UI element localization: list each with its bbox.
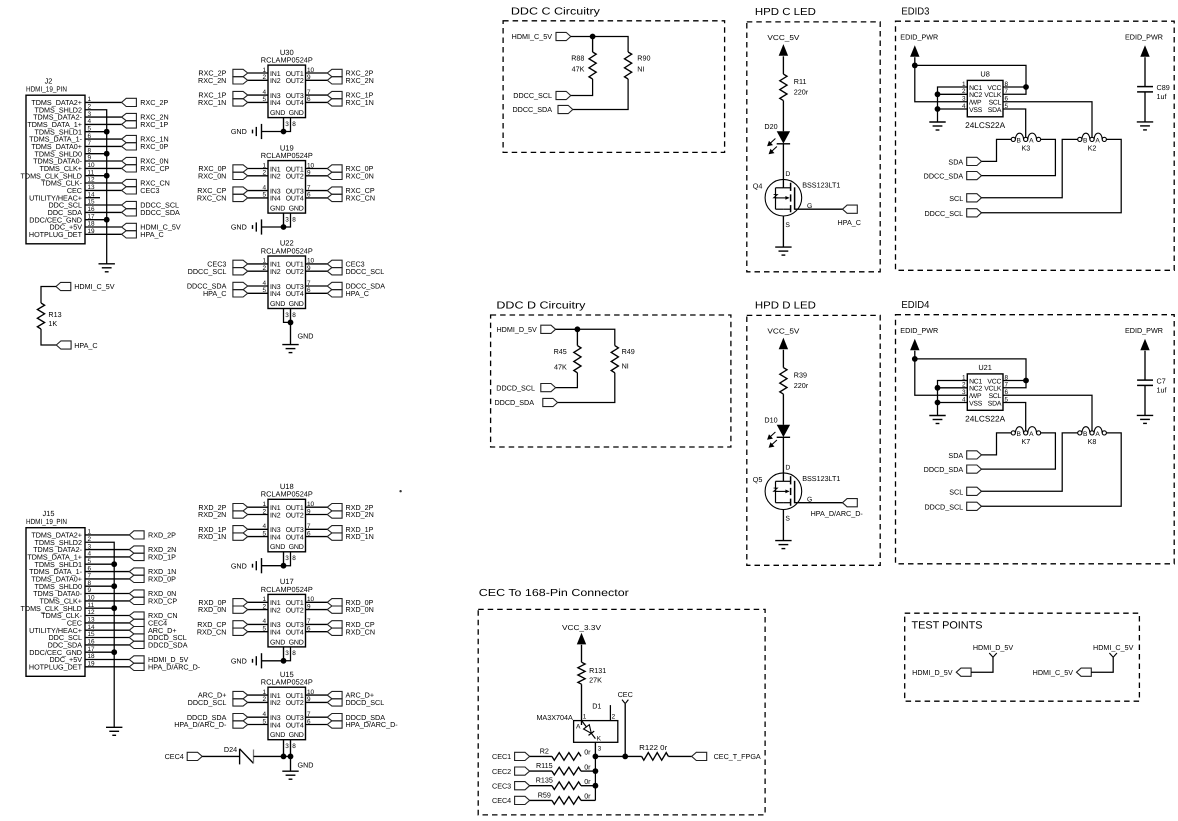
section box DDC D Circuitry <box>491 315 731 447</box>
wire J2 pin 11 shield <box>85 175 107 177</box>
port RXC_1P (to U30 IN3) <box>233 91 248 98</box>
svg-text:8: 8 <box>292 121 296 128</box>
svg-text:0r: 0r <box>584 748 591 757</box>
port RXD_1N (from U18 OUT4) <box>327 533 342 540</box>
ground GND (U22) <box>282 344 298 346</box>
port SDA <box>967 451 982 459</box>
wire U18 pin8 to ground <box>284 552 291 566</box>
ground J2 shield <box>99 263 115 265</box>
junction U19 gnd <box>281 224 287 230</box>
wire J2 pin 13 <box>85 189 122 191</box>
svg-text:D1: D1 <box>592 702 601 711</box>
junction J15 pin 11 <box>111 605 117 611</box>
resistor R2 0r <box>552 753 581 761</box>
svg-text:GND: GND <box>298 760 314 769</box>
svg-text:RXC_0N: RXC_0N <box>198 171 226 180</box>
wire EDID_PWR to C89 <box>1144 57 1146 86</box>
junction U18 gnd <box>281 563 287 569</box>
svg-text:IN4: IN4 <box>270 630 281 637</box>
wire VCC_3.3V to R131 <box>581 645 583 662</box>
wire U17 pin3 to ground <box>283 647 285 661</box>
wire J15 pin 11 shield <box>85 607 114 609</box>
svg-text:8: 8 <box>292 555 296 562</box>
ground GND (U17) <box>261 653 263 668</box>
resistor R115 0r <box>552 767 581 775</box>
wire U19 out2 <box>306 175 328 177</box>
wire J15 pin 8 shield <box>85 585 114 587</box>
wire U18 out3 <box>306 528 328 530</box>
wire J2 pin 15 <box>85 204 122 206</box>
port RXD_0N <box>129 590 144 597</box>
svg-text:OUT2: OUT2 <box>286 607 304 614</box>
svg-text:OUT3: OUT3 <box>286 284 304 291</box>
wire node to R88 <box>592 37 594 53</box>
svg-text:47K: 47K <box>572 65 585 74</box>
svg-text:SCL: SCL <box>949 194 963 203</box>
port CEC3 <box>515 782 530 790</box>
port RXC_2P (to U30 IN1) <box>233 69 248 76</box>
wire J15 pin 7 <box>85 578 129 580</box>
junction CEC bus r1 <box>593 754 599 760</box>
jumper K3 <box>1011 137 1015 141</box>
wire J15 pin 9 <box>85 593 129 595</box>
jumper K2 <box>1078 137 1082 141</box>
port RXC_0N (to U19 IN2) <box>233 172 248 179</box>
resistor R90 NI <box>625 52 632 79</box>
svg-text:RCLAMP0524P: RCLAMP0524P <box>261 585 313 594</box>
port HDMI_D_5V <box>129 656 144 663</box>
wire U19 in1 <box>248 168 268 170</box>
svg-text:SCL: SCL <box>989 393 1002 400</box>
svg-text:OUT4: OUT4 <box>286 722 304 729</box>
svg-text:RXD_2N: RXD_2N <box>198 510 226 519</box>
port CEC2 <box>515 767 530 775</box>
port ARC_D+ (from U15 OUT1) <box>327 691 342 698</box>
section box HPD C LED <box>747 22 880 272</box>
junction CEC bus r3 <box>593 783 599 789</box>
svg-text:RXC_2P: RXC_2P <box>140 98 168 107</box>
wire U8 VSS <box>938 108 968 110</box>
wire U19 out4 <box>306 197 328 199</box>
wire U30 out2 <box>306 79 328 81</box>
svg-text:BSS123LT1: BSS123LT1 <box>802 180 840 189</box>
svg-text:RCLAMP0524P: RCLAMP0524P <box>261 246 313 255</box>
svg-text:DDCC_SDA: DDCC_SDA <box>140 208 180 217</box>
svg-text:EDID_PWR: EDID_PWR <box>1125 33 1163 42</box>
svg-text:OUT4: OUT4 <box>286 100 304 107</box>
port RXD_0N (from U17 OUT2) <box>327 606 342 613</box>
svg-text:GND: GND <box>231 223 247 232</box>
port RXC_2P <box>122 98 137 106</box>
port HPA_D/ARC_D- <box>843 499 858 507</box>
svg-text:GND: GND <box>289 301 304 308</box>
svg-text:GND: GND <box>289 544 304 551</box>
svg-text:RXC_0P: RXC_0P <box>140 142 168 151</box>
port RXC_0N (from U19 OUT2) <box>327 172 342 179</box>
junction U15 pin8 <box>288 754 294 760</box>
junction J2 pin 5 <box>104 129 110 135</box>
svg-text:IN4: IN4 <box>270 100 281 107</box>
wire U18 out2 <box>306 514 328 516</box>
wire J2 pin 16 <box>85 211 122 213</box>
wire U30 in1 <box>248 72 268 74</box>
port DDCD_SCL (from U15 OUT2) <box>327 699 342 706</box>
port CEC4 <box>129 619 144 626</box>
wire U18 in4 <box>248 536 268 538</box>
wire C7 to ground <box>1144 385 1146 415</box>
wire CEC4 to R59 <box>530 799 552 801</box>
IC U30 RCLAMP0524P <box>261 48 315 128</box>
svg-text:47K: 47K <box>554 363 567 372</box>
port RXC_1P (from U30 OUT3) <box>327 91 342 98</box>
wire U17 in4 <box>248 631 268 633</box>
port RXD_CP (to U17 IN3) <box>233 621 248 628</box>
port CEC3 <box>122 187 137 194</box>
wire EDID_PWR to U21 /WP <box>915 359 968 395</box>
svg-text:OUT3: OUT3 <box>286 527 304 534</box>
wire U30 pin8 to ground <box>284 118 291 132</box>
port RXC_2N (from U30 OUT2) <box>327 77 342 84</box>
wire D1 pin3 to bus <box>594 742 596 756</box>
svg-text:GND: GND <box>270 206 285 213</box>
ground GND (U18) <box>261 558 263 573</box>
wire U15 out3 <box>306 716 328 718</box>
junction EDID_PWR <box>912 356 918 362</box>
wire U19 pin3 to ground <box>283 213 285 227</box>
wire U19 ground rail <box>262 226 284 228</box>
wire J2 pin 12 <box>85 182 122 184</box>
svg-text:IN2: IN2 <box>270 174 281 181</box>
svg-text:RXD_1N: RXD_1N <box>346 532 374 541</box>
svg-text:IN2: IN2 <box>270 700 281 707</box>
wire J15 pin 19 <box>85 666 129 668</box>
svg-text:RXD_CN: RXD_CN <box>197 627 227 636</box>
svg-text:IN1: IN1 <box>270 600 281 607</box>
port RXD_0P (to U17 IN1) <box>233 599 248 606</box>
wire U8 VCC <box>1003 86 1026 88</box>
port DDCC_SCL (from U22 OUT2) <box>327 268 342 275</box>
svg-text:CEC To 168-Pin Connector: CEC To 168-Pin Connector <box>479 588 630 599</box>
svg-text:IN1: IN1 <box>270 166 281 173</box>
junction CEC bus r2 <box>593 768 599 774</box>
wire U18 in3 <box>248 528 268 530</box>
svg-text:GND: GND <box>289 206 304 213</box>
port RXC_1N <box>122 135 137 142</box>
wire J15 pin 16 <box>85 644 129 646</box>
ground GND (U19) <box>261 219 263 234</box>
svg-text:RCLAMP0524P: RCLAMP0524P <box>261 678 313 687</box>
svg-text:SCL: SCL <box>989 100 1002 107</box>
wire U22 pin3 to ground <box>284 309 291 323</box>
wire U15 in3 <box>248 716 268 718</box>
wire HDMI_D_5V to node <box>556 328 578 330</box>
wire U18 ground rail <box>262 565 284 567</box>
junction J15 pin 5 <box>111 561 117 567</box>
section box DDC C Circuitry <box>503 21 724 153</box>
port RXC_2N <box>122 113 137 120</box>
svg-text:CEC1: CEC1 <box>492 752 511 761</box>
wire U30 pin3 to ground <box>283 118 285 132</box>
svg-text:OUT1: OUT1 <box>286 600 304 607</box>
port RXD_CN (from U17 OUT4) <box>327 628 342 635</box>
wire U21 VSS <box>938 402 968 404</box>
wire U17 in1 <box>248 601 268 603</box>
svg-text:IN4: IN4 <box>270 196 281 203</box>
wire EDID_PWR to U21 VCC/VCLK <box>915 359 1026 388</box>
junction U30 gnd <box>281 129 287 135</box>
wire EDID_PWR stem <box>914 57 916 65</box>
IC U15 RCLAMP0524P <box>261 670 315 750</box>
svg-text:D20: D20 <box>764 122 777 131</box>
svg-text:GND: GND <box>270 110 285 117</box>
wire HDMI_C_5V testpoint <box>1091 657 1113 672</box>
wire node to R90 <box>593 37 629 53</box>
connector J2 HDMI_19_PIN <box>20 77 95 244</box>
wire U17 in2 <box>248 609 268 611</box>
svg-text:R115: R115 <box>536 761 553 770</box>
wire SDA to K3 B <box>982 139 1012 161</box>
wire HDMI_D_5V testpoint <box>971 657 993 672</box>
wire J2 pin 1 <box>85 101 122 103</box>
wire C89 to ground <box>1144 92 1146 122</box>
jumper K7 <box>1011 431 1015 435</box>
svg-text:CEC3: CEC3 <box>492 781 511 790</box>
wire U19 in4 <box>248 197 268 199</box>
svg-text:DDCC_SDA: DDCC_SDA <box>924 172 964 181</box>
svg-text:HPA_D/ARC_D-: HPA_D/ARC_D- <box>174 720 227 729</box>
svg-text:EDID_PWR: EDID_PWR <box>900 326 938 335</box>
svg-text:EDID_PWR: EDID_PWR <box>1125 326 1163 335</box>
wire J15 pin 1 <box>85 534 129 536</box>
wire U22 out2 <box>306 270 328 272</box>
wire U22 in2 <box>248 270 268 272</box>
port DDCC_SDA (to U22 IN3) <box>233 282 248 289</box>
capacitor C89 1uf <box>1137 86 1153 88</box>
svg-text:0r: 0r <box>584 762 591 771</box>
svg-text:DDCC_SCL: DDCC_SCL <box>188 267 227 276</box>
svg-text:U21: U21 <box>978 363 992 372</box>
svg-text:RXD_0N: RXD_0N <box>198 605 226 614</box>
svg-text:IN1: IN1 <box>270 505 281 512</box>
svg-text:1K: 1K <box>48 319 57 328</box>
port RXC_CN (from U19 OUT4) <box>327 194 342 201</box>
svg-text:R39: R39 <box>794 371 807 380</box>
port CEC3 (from U22 OUT1) <box>327 260 342 267</box>
wire U21 NC2 <box>938 387 968 389</box>
port DDCC_SCL <box>122 201 137 208</box>
svg-text:IN3: IN3 <box>270 527 281 534</box>
svg-text:/WP: /WP <box>969 100 982 107</box>
wire Q5 gate to HPA_D/ARC_D- <box>795 502 843 504</box>
IC U19 RCLAMP0524P <box>261 143 315 223</box>
wire CEC bus vertical <box>594 756 596 800</box>
wire U19 out3 <box>306 190 328 192</box>
svg-text:HPA_C: HPA_C <box>838 218 861 227</box>
wire SCL to K2 B <box>982 139 1078 197</box>
svg-text:DDCD_SCL: DDCD_SCL <box>924 502 963 511</box>
svg-text:D24: D24 <box>224 745 237 754</box>
svg-text:HDMI_C_5V: HDMI_C_5V <box>1033 668 1074 677</box>
svg-text:IN3: IN3 <box>270 284 281 291</box>
wire node to R45 <box>576 329 578 345</box>
port RXD_1P (to U18 IN3) <box>233 526 248 533</box>
svg-text:IN1: IN1 <box>270 262 281 269</box>
ground (EDID3 U8) <box>929 121 945 123</box>
port HPA_C (from U22 OUT4) <box>327 290 342 297</box>
ground (HPD C LED) <box>775 246 791 248</box>
port DDCD_SCL (DDC D) <box>541 384 556 392</box>
port DDCC_SCL <box>967 209 982 217</box>
svg-text:DDC D Circuitry: DDC D Circuitry <box>496 301 586 312</box>
wire R122 to CEC_T_FPGA <box>668 755 691 757</box>
svg-text:IN2: IN2 <box>270 607 281 614</box>
wire bus to R122 <box>595 755 641 757</box>
wire J15 pin 15 <box>85 637 129 639</box>
port RXC_1N (from U30 OUT4) <box>327 99 342 106</box>
wire U8 SCL to K2 <box>1003 102 1092 137</box>
svg-text:HPA_C: HPA_C <box>74 341 97 350</box>
port RXD_CN (to U17 IN4) <box>233 628 248 635</box>
wire DDCC_SDA to K3 A <box>982 139 1056 175</box>
wire U17 pin8 to ground <box>284 647 291 661</box>
svg-text:HPA_C: HPA_C <box>203 289 226 298</box>
svg-text:RCLAMP0524P: RCLAMP0524P <box>261 56 313 65</box>
junction NC2 tie <box>935 91 941 97</box>
svg-text:VCC_3.3V: VCC_3.3V <box>562 623 601 632</box>
svg-text:IN4: IN4 <box>270 722 281 729</box>
wire R13 to HPA_C <box>41 329 56 345</box>
svg-text:HOTPLUG_DET: HOTPLUG_DET <box>29 230 83 239</box>
svg-text:IN3: IN3 <box>270 622 281 629</box>
svg-text:1: 1 <box>583 713 587 720</box>
port DDCD_SDA (DDC D) <box>543 398 558 406</box>
port CEC4 <box>515 796 530 804</box>
IC U18 RCLAMP0524P <box>261 482 315 562</box>
svg-text:GND: GND <box>289 110 304 117</box>
svg-text:S: S <box>785 516 790 523</box>
svg-text:IN1: IN1 <box>270 71 281 78</box>
ground (EDID4 U21) <box>929 415 945 417</box>
svg-text:IN3: IN3 <box>270 93 281 100</box>
wire HDMI_C_5V to node <box>571 36 593 38</box>
svg-text:3: 3 <box>285 121 289 128</box>
svg-text:SDA: SDA <box>948 157 963 166</box>
wire J15 pin 17 shield <box>85 651 114 653</box>
port CEC_T_FPGA <box>692 752 707 760</box>
IC U22 RCLAMP0524P <box>261 239 315 319</box>
wire DDCD_SDA to K7 A <box>982 433 1056 469</box>
wire U17 out4 <box>306 631 328 633</box>
wire R131 to D1 pin1 <box>581 684 583 725</box>
svg-text:NI: NI <box>637 65 644 74</box>
svg-text:0r: 0r <box>584 792 591 801</box>
svg-text:HDMI_19_PIN: HDMI_19_PIN <box>26 517 67 526</box>
svg-text:Q4: Q4 <box>753 182 763 191</box>
port SCL <box>967 194 982 202</box>
svg-text:R135: R135 <box>536 776 553 785</box>
port RXC_0P (from U19 OUT1) <box>327 165 342 172</box>
svg-text:NC1: NC1 <box>969 85 982 92</box>
svg-text:IN2: IN2 <box>270 78 281 85</box>
svg-text:CEC4: CEC4 <box>492 796 511 805</box>
port RXD_1N <box>129 568 144 575</box>
svg-text:GND: GND <box>270 639 285 646</box>
resistor R135 0r <box>552 782 581 790</box>
wire U15 out1 <box>306 694 328 696</box>
svg-text:HDMI_C_5V: HDMI_C_5V <box>74 282 115 291</box>
svg-text:A: A <box>576 724 581 731</box>
svg-text:R59: R59 <box>538 790 551 799</box>
port DDCC_SDA (from U22 OUT3) <box>327 282 342 289</box>
svg-text:3: 3 <box>285 312 289 319</box>
wire CEC drop <box>624 704 626 757</box>
svg-text:GND: GND <box>231 656 247 665</box>
svg-text:IN1: IN1 <box>270 693 281 700</box>
svg-text:HDMI_D_5V: HDMI_D_5V <box>973 643 1014 652</box>
svg-text:R2: R2 <box>540 746 549 755</box>
svg-text:DDCD_SDA: DDCD_SDA <box>148 641 188 650</box>
port RXD_CP (from U17 OUT3) <box>327 621 342 628</box>
wire J2 pin 9 <box>85 160 122 162</box>
svg-text:HPA_C: HPA_C <box>140 230 163 239</box>
junction NC2 tie <box>935 385 941 391</box>
port HDMI_D_5V (DDC D) <box>541 325 556 333</box>
svg-text:8: 8 <box>292 312 296 319</box>
wire U15 pin3 <box>283 740 285 757</box>
wire J15 pin 10 <box>85 600 129 602</box>
port RXC_0P (to U19 IN1) <box>233 165 248 172</box>
port HPA_C (R13 bottom) <box>56 341 71 349</box>
svg-text:VCC: VCC <box>987 378 1001 385</box>
port HPA_C (to U22 IN4) <box>233 290 248 297</box>
wire EDID_PWR to C7 <box>1144 351 1146 380</box>
resistor R59 0r <box>552 797 581 805</box>
wire U17 out3 <box>306 623 328 625</box>
svg-text:OUT1: OUT1 <box>286 71 304 78</box>
port HDMI_C_5V (DDC C) <box>556 32 571 40</box>
wire DDCC_SCL to K2 A <box>982 139 1122 212</box>
junction U15 pin3 <box>281 754 287 760</box>
svg-text:OUT3: OUT3 <box>286 715 304 722</box>
port RXC_CN <box>122 179 137 186</box>
port DDCD_SDA (from U15 OUT3) <box>327 714 342 721</box>
svg-text:GND: GND <box>289 639 304 646</box>
port RXD_0P (from U17 OUT1) <box>327 599 342 606</box>
wire U18 out4 <box>306 536 328 538</box>
svg-text:GND: GND <box>231 127 247 136</box>
port HPA_C <box>843 205 858 213</box>
IC U17 RCLAMP0524P <box>261 577 315 657</box>
port RXD_1P (from U18 OUT3) <box>327 526 342 533</box>
junction J2 pin 17 <box>104 217 110 223</box>
svg-text:K2: K2 <box>1088 144 1097 153</box>
wire U30 out1 <box>306 72 328 74</box>
svg-text:1uf: 1uf <box>1157 92 1167 101</box>
svg-text:EDID_PWR: EDID_PWR <box>900 33 938 42</box>
port RXC_1P <box>122 121 137 128</box>
svg-text:220r: 220r <box>794 381 809 390</box>
wire HDMI_C_5V to R13 <box>41 287 56 304</box>
svg-text:BSS123LT1: BSS123LT1 <box>802 474 840 483</box>
svg-text:1uf: 1uf <box>1157 386 1167 395</box>
svg-text:R45: R45 <box>554 347 567 356</box>
svg-text:3: 3 <box>598 745 602 752</box>
wire CEC3 to R135 <box>530 785 552 787</box>
wire R45 to DDCD_SCL <box>556 373 578 388</box>
wire U30 out3 <box>306 94 328 96</box>
junction VSS tie <box>935 400 941 406</box>
wire J2 pin 17 shield <box>85 219 107 221</box>
